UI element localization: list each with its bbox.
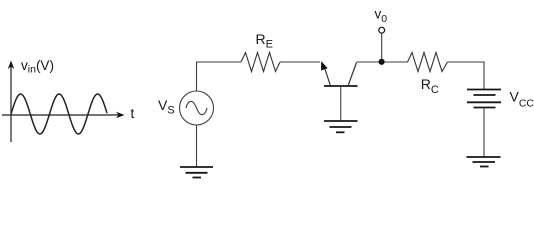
wire VS bottom to ground (196, 125, 198, 167)
source VS circle (180, 91, 214, 125)
wire base to ground (340, 86, 342, 121)
transistor Q1 emitter with arrow (321, 61, 330, 86)
label RE (256, 31, 273, 51)
wire RC to battery (448, 62, 485, 89)
resistor RC (408, 53, 448, 72)
t axis horizontal (2, 112, 125, 118)
battery VCC (467, 90, 501, 108)
input sine waveform (11, 94, 107, 134)
ground below battery (467, 157, 501, 167)
svg-text:t: t (131, 106, 135, 121)
wire VS top to RE (197, 62, 242, 91)
resistor RE (241, 53, 280, 72)
ground below base (324, 121, 358, 132)
t axis label (131, 106, 135, 121)
transistor Q1 base bar (324, 85, 358, 87)
wire collector to node (357, 61, 408, 63)
label VCC (510, 88, 534, 109)
vin(V) axis label (21, 58, 54, 75)
label VS (158, 97, 175, 117)
wire v0 terminal down (381, 33, 383, 62)
output terminal v0 circle (379, 27, 385, 33)
label v0 (375, 6, 388, 25)
transistor Q1 collector (348, 63, 357, 87)
label RC (421, 76, 439, 96)
source VS sine symbol (186, 101, 207, 114)
wire battery to ground (483, 108, 485, 158)
vin axis vertical (8, 61, 14, 143)
wire RE to emitter (280, 61, 320, 63)
ground below VS (180, 167, 213, 178)
junction node dot (379, 59, 385, 65)
svg-text:vin(V): vin(V) (21, 58, 54, 75)
